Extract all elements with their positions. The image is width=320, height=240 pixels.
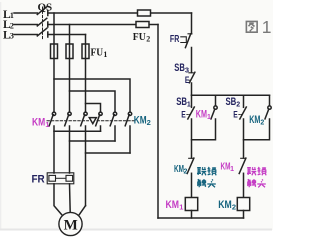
contact KM1 aux drop [215,95,217,106]
fuse FU2 upper [138,10,151,16]
contact KM1 aux blade [211,109,215,119]
QS output tick pole1 [47,11,49,16]
wire L3 input [14,34,37,36]
FR heater element right [66,175,73,181]
contact KM2 interlock bar [189,157,194,159]
FR heater link [56,177,67,179]
svg-text:1: 1 [103,50,107,59]
button SB3 blade [189,72,195,83]
contact KM1 aux wire [192,119,216,140]
svg-text:M: M [64,218,78,234]
contact FR NC blade [185,34,190,48]
wire control left rail [157,25,159,219]
wire bottom rail [158,217,244,219]
wire coil2 to rail [243,211,245,219]
QS output tick pole2 [47,22,49,27]
contact KM2 interlock blade [187,158,194,173]
wire FR to motor mid [69,184,72,213]
contactor KM2 pole4 [96,112,103,131]
svg-text:E: E [185,75,190,85]
wire interlock1 to coil [191,173,193,197]
wire L1 bus to control corner [48,12,192,14]
fuse FU1 pole1 [51,44,58,59]
contact KM1 aux circle [214,106,217,109]
svg-text:2: 2 [236,101,240,108]
wire L3 bus [48,34,86,36]
svg-text:QS: QS [38,2,53,14]
svg-text:3: 3 [185,66,189,75]
faint bottom artifact line [0,229,272,231]
wire coil1 to rail [191,211,193,219]
svg-text:3: 3 [10,32,14,41]
svg-text:SB: SB [174,62,185,74]
contact KM2 aux circle [268,106,271,109]
svg-text:FU: FU [133,31,146,43]
wire V to KM2 pole5 [70,91,116,112]
coil KM2 [237,198,249,211]
svg-text:FR: FR [170,34,180,45]
wire SB3 to node [191,83,193,95]
contactor KM2 pole5 [110,112,117,141]
wire pole4 to line U [54,130,101,132]
wire FR to SB3 [191,48,193,73]
svg-text:KM: KM [32,116,45,128]
label figure 图 1 [246,21,257,32]
svg-text:2: 2 [147,118,151,127]
wire phase U drop [53,13,55,112]
contactor KM1 pole2 [65,112,72,173]
FR heater element left [49,175,56,181]
linkage triangle [89,118,96,124]
wire W to KM2 pole4 [86,104,101,113]
button SB1 actuator dash [187,113,190,115]
contact FR NC hook [181,37,187,43]
svg-text:KM: KM [166,199,180,211]
wire SB1 down [191,119,193,158]
wire control top drop [191,13,193,34]
svg-text:1: 1 [45,120,49,129]
contactor KM1 pole3 [81,112,88,206]
motor M circle [59,212,82,235]
contactor KM1 pole1 [49,112,56,173]
label interlock text magenta [247,167,266,187]
wire FR to motor left [54,184,62,215]
button SB2 blade [240,107,247,119]
svg-text:KM: KM [134,114,147,126]
contactor linkage dashed [47,120,136,122]
button SB3 actuator dash [189,79,191,81]
wire pole6 to line W [86,152,131,154]
contact KM2 aux blade [265,109,269,119]
svg-text:2: 2 [184,168,188,175]
svg-text:SB: SB [226,96,237,108]
svg-text:1: 1 [230,166,234,173]
button SB2 actuator dash [239,113,242,115]
switch QS blade pole3 [37,28,47,36]
contact KM1 interlock blade [239,158,246,173]
svg-text:KM: KM [196,109,207,121]
svg-text:KM: KM [249,114,260,126]
svg-text:E: E [233,109,238,119]
svg-text:E: E [181,109,186,119]
wire W to motor right [79,206,85,215]
svg-text:2: 2 [146,35,150,44]
thermal relay FR box [47,173,74,184]
faint left edge artifact [0,2,2,229]
svg-text:2: 2 [232,202,236,211]
switch QS blade pole2 [37,18,47,26]
wire L2 bus to left rail [48,24,158,26]
svg-text:KM: KM [218,199,232,211]
button SB2 upper wire [243,95,245,107]
contactor KM2 pole6 [125,112,132,153]
contact KM2 aux drop [269,95,271,106]
coil KM1 [185,198,197,211]
wire pole5 to line V [70,140,116,142]
fuse FU1 pole2 [66,44,73,59]
wire U to KM2 pole6 [54,79,130,112]
svg-text:SB: SB [176,96,187,108]
QS output tick pole3 [47,32,49,37]
svg-text:FU: FU [91,46,104,58]
fuse FU1 pole3 [82,44,89,59]
contact FR NC tick [188,33,192,35]
wire L1 input [14,12,37,14]
contact KM2 aux wire [244,119,270,140]
fuse FU2 lower [136,22,149,28]
wire phase W drop [85,35,87,113]
wire interlock2 to coil [243,173,245,197]
svg-text:1: 1 [262,17,272,37]
button SB1 blade [188,107,195,119]
wire L2 input [14,24,37,26]
wire branch bus [192,94,270,96]
label interlock text blue [197,167,216,187]
svg-text:FR: FR [32,174,45,186]
svg-text:1: 1 [179,202,183,211]
svg-text:KM: KM [221,161,231,172]
button SB1 upper wire [191,95,193,107]
wire SB2 down [243,119,245,158]
wire phase V drop [69,25,71,113]
svg-text:1: 1 [187,101,191,108]
contact KM1 interlock bar [241,157,246,159]
button SB3 NC bar [189,72,193,74]
QS linkage dashed [42,7,44,40]
switch QS blade pole1 [37,7,47,15]
svg-text:KM: KM [174,164,184,175]
svg-text:1: 1 [207,114,211,121]
svg-text:2: 2 [260,119,264,126]
